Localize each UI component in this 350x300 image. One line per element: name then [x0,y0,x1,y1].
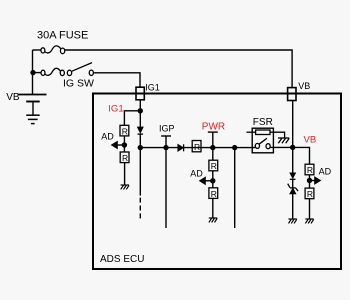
zener diode ZD1 (cathode up, bent bar) [288,184,298,194]
svg-text:FSR: FSR [253,117,273,128]
wire: rail to fuse F2 [33,72,42,74]
resistor R (left chain, bottom) [120,152,129,163]
resistor R (right chain, bottom) [305,188,314,199]
junction: left AD tap [122,142,127,147]
wire: PWR chain down [212,148,214,161]
wire: dashed continuation of IG1 line [139,198,141,219]
chassis ground (VB clamp) [288,219,296,223]
junction: bus at relay feed line [232,145,237,150]
wire: top feed from rail to fuse F1 [33,49,42,51]
ground (battery) [26,115,40,123]
svg-text:VB: VB [304,135,317,146]
battery VB [18,94,46,96]
terminal IG1 [136,87,144,100]
resistor R (right chain, top) [305,164,314,175]
wire: VB node to right AD chain [293,147,310,164]
fuse F2 [41,68,64,75]
wire: VB terminal down to diode [292,101,294,173]
wire: IG1 terminal down to diode [139,100,141,127]
junction: PWR AD tap [210,178,215,183]
resistor R (PWR chain, top) [209,160,218,171]
svg-text:AD: AD [319,166,332,176]
diode D1 (IG1 line, cathode down) [138,127,144,134]
junction: bus at IG1 line [138,145,143,150]
svg-text:AD: AD [190,168,203,178]
junction: right AD tap [307,178,312,183]
relay switch blade [259,138,267,144]
relay switch contacts [255,143,259,148]
svg-text:VB: VB [6,92,20,103]
relay FSR [247,117,290,153]
diode D3 (VB line, cathode down) [290,173,296,179]
terminal bar PWR [208,131,218,133]
fuse F1 (30A) [41,46,65,54]
wire: left rail (top corner down to battery) [32,50,34,94]
wire: fuse F1 to VB terminal (top long run, corner at right) [65,50,292,88]
diode D2 (bus, cathode right) [178,144,184,151]
wire: between diode and zener [292,179,294,188]
wire: IGP line down [165,148,167,228]
ECU box (ADS ECU) [93,94,341,270]
wire: between right resistors [309,175,311,188]
wire: IG1 node to left AD chain [124,111,140,126]
svg-text:R: R [122,126,128,136]
junction: bus at PWR line [210,145,215,150]
AD arrow (PWR chain, points left) [199,177,212,184]
junction: left rail / IG SW branch [30,70,35,75]
svg-text:IG1: IG1 [145,82,160,92]
junction: IG1 node [138,108,143,113]
junction: VB node [290,145,295,150]
resistor R (PWR chain, bottom) [209,188,218,199]
resistor R (bus) [192,141,201,152]
wire: PWR chain to ground [212,198,214,218]
bus wire (IG1 node across to relay) [140,147,255,149]
svg-text:R: R [194,142,200,152]
wire: coil to chassis ground [270,132,285,137]
junction: bus at IGP line [163,145,168,150]
svg-text:IG SW: IG SW [63,77,94,89]
relay coil [256,130,270,135]
wire: coil stub (left) [247,131,256,133]
chassis ground (relay coil) [278,138,289,143]
svg-text:R: R [307,165,313,175]
AD arrow (right chain, points right) [310,177,321,184]
wire: relay feed line down [234,148,236,228]
resistor R (left chain, top) [120,125,129,136]
svg-text:AD: AD [101,131,114,141]
wire: relay output to VB line [270,146,293,148]
ignition switch IG SW [67,63,93,76]
svg-text:30A FUSE: 30A FUSE [37,30,88,42]
chassis ground (right chain) [305,219,313,223]
terminal bar IGP [161,135,171,137]
svg-text:R: R [307,189,313,199]
wire: zener to ground [292,194,294,219]
AD arrow (left chain, points left) [111,141,124,148]
chassis ground (PWR chain) [209,218,217,222]
wire: between left resistors [123,136,125,152]
svg-text:VB: VB [298,81,310,91]
relay outer box [252,128,273,153]
wire: IGP stem [165,136,167,148]
svg-text:IG1: IG1 [108,103,123,114]
wire: right chain to ground [309,199,311,219]
wire: left chain to ground [124,163,126,185]
chassis ground (left chain) [121,185,129,189]
wire: between PWR resistors [212,171,214,188]
svg-text:R: R [211,161,217,171]
wire: switch to IG1 terminal [93,73,140,87]
svg-text:PWR: PWR [202,121,225,132]
svg-text:ADS ECU: ADS ECU [100,254,144,265]
svg-text:IGP: IGP [159,124,175,134]
svg-text:R: R [211,189,217,199]
svg-text:R: R [122,153,128,163]
terminal VB [288,88,296,101]
wire: diode to bus and below [139,134,141,195]
wire: PWR stem [212,132,214,148]
wire: battery negative to ground [32,102,34,115]
